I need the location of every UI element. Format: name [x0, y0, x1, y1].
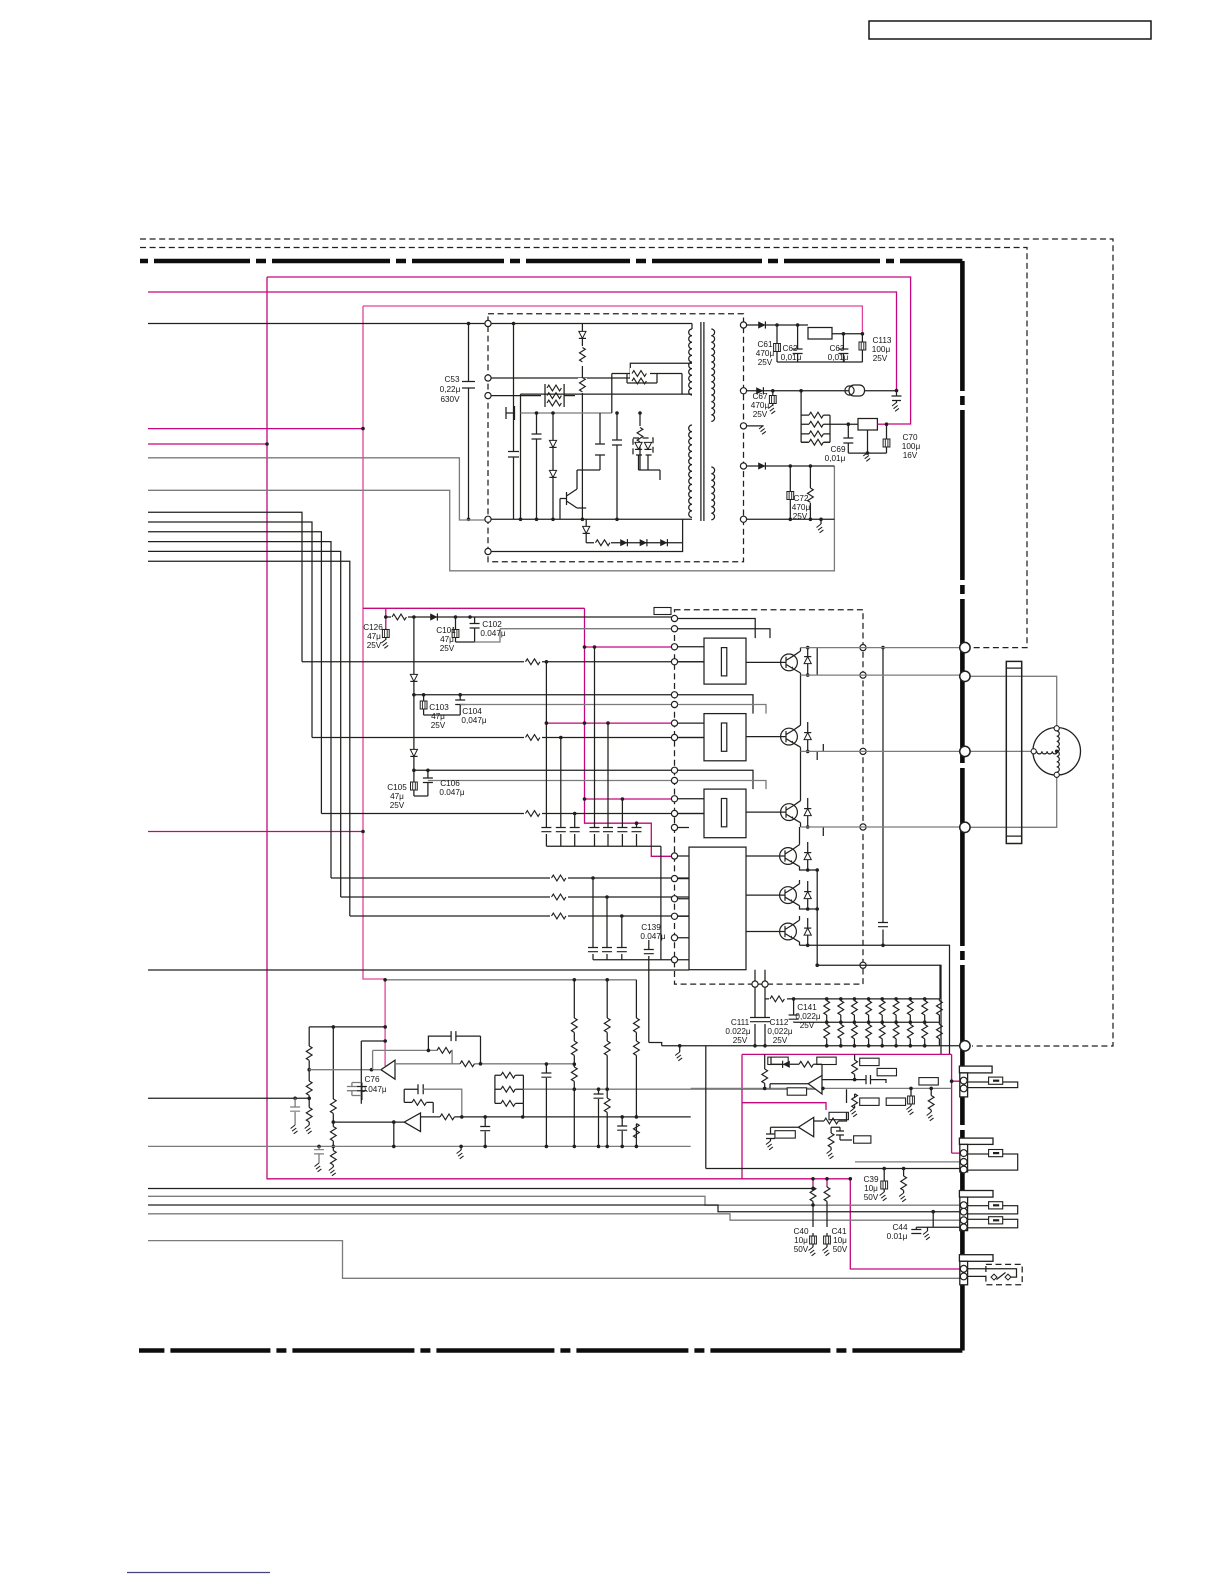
res C39 — [903, 1169, 905, 1194]
cap mid — [532, 413, 542, 519]
resistor array row1 — [824, 997, 943, 1022]
row6 line — [350, 915, 689, 917]
connector group3 — [959, 1191, 1017, 1231]
wire gray mid — [148, 458, 486, 520]
driver dashed box — [675, 610, 864, 984]
primary winding 1 — [689, 329, 692, 395]
wire 4c — [148, 1205, 960, 1212]
decoupling caps row1 — [545, 662, 547, 847]
bus wire 4 — [148, 542, 331, 878]
gnd sym mid — [460, 1146, 462, 1150]
svg-text:25V: 25V — [758, 358, 773, 367]
outer dashed border — [140, 239, 1113, 1046]
resistor array row2 — [824, 1020, 943, 1047]
caps row1 rail — [546, 846, 661, 959]
output line A — [309, 1069, 381, 1071]
diode chain — [413, 617, 415, 769]
svg-text:470μ: 470μ — [751, 401, 770, 410]
pink net line3 — [363, 306, 862, 334]
feed b3 — [678, 781, 766, 790]
diode row — [586, 519, 682, 542]
C72 line — [747, 465, 835, 467]
svg-text:0.01μ: 0.01μ — [887, 1232, 908, 1241]
svg-text:C40: C40 — [793, 1227, 808, 1236]
svg-text:50V: 50V — [794, 1245, 809, 1254]
svg-text:25V: 25V — [733, 1036, 748, 1045]
capacitor C40 — [812, 1233, 814, 1247]
pink net line2 — [148, 292, 897, 391]
svg-text:0,022μ: 0,022μ — [767, 1027, 792, 1036]
svg-text:0,22μ: 0,22μ — [440, 385, 461, 394]
svg-text:C70: C70 — [902, 433, 917, 442]
pink junction dots — [361, 427, 365, 431]
pink net left vertical / bottom rail — [267, 277, 960, 1269]
svg-text:C112: C112 — [770, 1018, 789, 1027]
label boxes — [768, 1057, 939, 1143]
capacitor C70 — [877, 423, 886, 425]
capacitor C39 — [883, 1169, 885, 1193]
feed a1 — [678, 619, 756, 639]
resistor bank 4x — [801, 391, 830, 443]
row5 line — [341, 896, 689, 898]
transistor Q2 — [781, 728, 798, 745]
C126 rail — [386, 616, 675, 618]
svg-text:C62: C62 — [782, 344, 797, 353]
resistor array mid rail — [794, 1021, 940, 1023]
res gnd 2 — [930, 1088, 932, 1112]
svg-text:C69: C69 — [830, 445, 845, 454]
pink drop C126 — [385, 608, 387, 628]
svg-text:25V: 25V — [367, 641, 382, 650]
link to array — [939, 965, 941, 999]
loop black — [361, 1041, 385, 1104]
input line B — [395, 1063, 574, 1065]
bottom line Q6 — [800, 945, 950, 1054]
motor connector bar — [1006, 661, 1021, 843]
cap s3 — [621, 1117, 623, 1146]
svg-text:0.047μ: 0.047μ — [361, 1085, 386, 1094]
bus wire 5 — [148, 551, 341, 897]
svg-text:25V: 25V — [390, 801, 405, 810]
wire 4b — [148, 1196, 960, 1205]
capacitor C139 — [648, 940, 650, 960]
gray link — [475, 629, 675, 642]
net A — [771, 1057, 822, 1076]
svg-text:100μ: 100μ — [872, 345, 891, 354]
thick chain border top — [140, 259, 962, 264]
svg-text:47μ: 47μ — [440, 635, 454, 644]
motor M1 — [1033, 728, 1081, 776]
svg-text:470μ: 470μ — [756, 349, 775, 358]
emitter bus — [817, 648, 823, 966]
pink box top — [742, 1054, 952, 1178]
divider chain B — [332, 1027, 334, 1167]
divider chain A — [308, 1027, 310, 1125]
bus wire 3 — [148, 532, 321, 814]
svg-text:10μ: 10μ — [864, 1184, 878, 1193]
thick chain border bottom — [139, 1348, 962, 1353]
C67 line — [747, 390, 849, 392]
svg-text:C44: C44 — [892, 1223, 907, 1232]
wire gray low wrap — [148, 466, 834, 571]
C105 line — [414, 769, 675, 771]
svg-text:0,022μ: 0,022μ — [795, 1012, 820, 1021]
capacitor C63 — [838, 334, 848, 362]
row4 line — [331, 877, 689, 879]
svg-text:16V: 16V — [903, 451, 918, 460]
svg-text:0,01μ: 0,01μ — [828, 353, 849, 362]
gray link2 — [460, 704, 674, 706]
primary tap wire — [491, 363, 692, 378]
pink branch line4 — [148, 428, 363, 430]
wire 4d — [148, 1214, 960, 1220]
resistor C41 leg — [826, 1179, 828, 1186]
svg-text:C101: C101 — [436, 626, 456, 635]
transistor Q5 — [780, 887, 797, 904]
gnd cap left — [318, 1146, 320, 1163]
bottom-left rule — [127, 1572, 270, 1574]
connector group1 — [959, 1066, 1017, 1097]
IC pin stubs — [755, 970, 765, 981]
resistor array top rail — [765, 998, 940, 1000]
driver pins left — [671, 615, 677, 621]
capacitor C72 — [789, 466, 791, 519]
fb B res — [831, 1127, 840, 1150]
C61 ground rail — [777, 361, 862, 363]
resistor C72r — [809, 466, 811, 519]
svg-text:50V: 50V — [864, 1193, 879, 1202]
svg-text:47μ: 47μ — [367, 632, 381, 641]
pink supply rail — [363, 608, 675, 856]
transformer pins left — [485, 320, 491, 326]
row1 resistor line — [302, 661, 704, 663]
loop B cap — [404, 1089, 433, 1113]
feed b2 — [678, 705, 766, 714]
feed a2 — [678, 695, 753, 714]
vert links right — [649, 960, 662, 1046]
wire low gray — [385, 979, 636, 981]
sense chain 3 — [635, 980, 637, 1146]
capacitor C69 — [843, 424, 853, 453]
svg-text:25V: 25V — [440, 644, 455, 653]
out line mid — [421, 1116, 691, 1118]
C72 bottom line — [747, 518, 835, 520]
svg-text:47μ: 47μ — [390, 792, 404, 801]
diode-resistor chain — [581, 324, 583, 520]
svg-text:C105: C105 — [387, 783, 407, 792]
svg-text:25V: 25V — [431, 721, 446, 730]
svg-text:0,01μ: 0,01μ — [781, 353, 802, 362]
svg-text:C103: C103 — [429, 703, 449, 712]
phase rail W — [801, 750, 960, 752]
capacitor C101 — [456, 617, 475, 642]
gnd rail opamp — [148, 1145, 691, 1147]
transformer core — [701, 322, 704, 521]
pink feed 1 — [585, 646, 675, 648]
bottom rail — [491, 518, 692, 520]
svg-text:C139: C139 — [641, 923, 661, 932]
motor wire C — [970, 777, 1056, 827]
line to pin out — [817, 965, 941, 1054]
vertical hv — [882, 648, 884, 946]
feed a3 — [678, 770, 753, 789]
svg-text:C67: C67 — [752, 392, 767, 401]
pin stubs — [678, 647, 704, 960]
svg-text:C126: C126 — [363, 623, 383, 632]
feedback gray — [373, 1050, 453, 1069]
capacitor C103 — [424, 695, 461, 715]
regulator U62 — [858, 419, 877, 431]
row2 resistor line — [312, 737, 704, 739]
bus wire 2 — [148, 522, 312, 738]
capacitor C141 — [793, 999, 795, 1022]
mid junction — [854, 1094, 856, 1108]
cap mid — [545, 1064, 547, 1146]
svg-text:25V: 25V — [793, 512, 808, 521]
svg-text:25V: 25V — [800, 1021, 815, 1030]
svg-text:C111: C111 — [731, 1018, 750, 1027]
pink vertical x363 — [363, 306, 385, 1066]
phase rail G — [801, 826, 960, 828]
switch S1 — [967, 1269, 1016, 1277]
pink feed 2 — [546, 722, 674, 724]
motor wire B — [970, 750, 1031, 752]
caps row2 rail — [593, 959, 675, 961]
title box — [869, 21, 1151, 39]
driver small box — [654, 608, 671, 615]
motor windings — [1057, 731, 1060, 752]
wire low black — [148, 969, 689, 971]
svg-text:100μ: 100μ — [902, 442, 921, 451]
top rail — [309, 1026, 385, 1028]
svg-text:47μ: 47μ — [431, 712, 445, 721]
SECTION:LABELS — [361, 336, 920, 1254]
svg-text:25V: 25V — [773, 1036, 788, 1045]
phase rail V — [801, 674, 960, 676]
sense chain 2 — [606, 980, 608, 1146]
mid tap ground — [747, 425, 764, 427]
svg-text:0.047μ: 0.047μ — [640, 932, 665, 941]
svg-text:0.047μ: 0.047μ — [439, 788, 464, 797]
op-amp U4B — [798, 1117, 813, 1136]
thick chain border right — [960, 261, 965, 1351]
mosfet Q — [506, 394, 692, 519]
C103 line — [414, 694, 675, 696]
svg-text:C141: C141 — [797, 1003, 817, 1012]
svg-text:C104: C104 — [462, 707, 482, 716]
caps row2 — [592, 878, 594, 960]
transformer dashed box — [488, 314, 744, 562]
inner dashed border — [140, 248, 1027, 648]
svg-text:C72: C72 — [793, 494, 808, 503]
freewheel diodes — [807, 648, 809, 676]
motor wire A — [970, 676, 1056, 726]
driver pins right — [860, 645, 866, 651]
wire group2 pin3 — [706, 1046, 960, 1169]
gate feed line — [491, 395, 545, 397]
svg-text:630V: 630V — [440, 395, 460, 404]
svg-text:C53: C53 — [444, 375, 459, 384]
pink net V+ outer — [267, 277, 911, 424]
diode pair vertical — [552, 413, 554, 519]
svg-text:C39: C39 — [863, 1175, 878, 1184]
transistor q2 — [560, 470, 600, 519]
primary winding 2 — [689, 425, 692, 517]
pink branch left low — [148, 831, 363, 833]
svg-text:10μ: 10μ — [794, 1236, 808, 1245]
triple resistor mid — [495, 1075, 524, 1103]
svg-text:50V: 50V — [833, 1245, 848, 1254]
phase rail U — [801, 647, 960, 649]
input wire — [148, 1097, 309, 1099]
pink feed 3 — [585, 798, 675, 800]
opto coupler 3 — [704, 789, 746, 838]
svg-text:C41: C41 — [831, 1227, 846, 1236]
gray fb line long — [523, 1088, 823, 1090]
sense chain 1 — [573, 980, 575, 1146]
svg-text:C63: C63 — [829, 344, 844, 353]
output line B — [333, 1121, 404, 1123]
svg-text:10μ: 10μ — [833, 1236, 847, 1245]
ground rail — [662, 1045, 960, 1047]
capacitor C104 — [455, 695, 465, 715]
driver IC box — [689, 847, 746, 970]
capacitor C106 — [423, 770, 433, 796]
net B — [814, 1089, 847, 1121]
feed b1 — [678, 629, 770, 638]
out B — [766, 1127, 798, 1141]
capacitor C105 — [414, 770, 428, 796]
gate line gray — [521, 412, 612, 414]
C61 rail — [747, 324, 808, 326]
res gnd 1 — [910, 1088, 912, 1106]
input cap — [294, 1098, 296, 1125]
cap drop — [484, 1117, 486, 1147]
svg-text:0,047μ: 0,047μ — [461, 716, 486, 725]
svg-text:0.047μ: 0.047μ — [480, 629, 505, 638]
pink box right — [952, 1054, 960, 1153]
transistor Q6 — [780, 923, 797, 940]
capacitor C113 — [861, 334, 863, 362]
op-amp U4A — [808, 1076, 822, 1095]
row3 resistor line — [321, 813, 704, 815]
capacitor C76 — [347, 1083, 361, 1096]
opto coupler 2 — [704, 714, 746, 761]
secondary winding 2 — [711, 467, 714, 520]
svg-text:C76: C76 — [364, 1075, 379, 1084]
transformer pins right — [740, 322, 746, 328]
output A left — [770, 1084, 808, 1089]
transistor Q3 — [781, 804, 798, 821]
capacitor C53 — [462, 324, 475, 520]
primary top rail — [491, 324, 692, 330]
big pins on trunk — [960, 642, 970, 652]
zener pair dashed — [633, 438, 653, 455]
svg-text:25V: 25V — [873, 354, 888, 363]
svg-text:C61: C61 — [757, 340, 772, 349]
wire AC in — [148, 323, 488, 325]
rc cluster — [612, 374, 682, 414]
capacitor C44 — [911, 1212, 959, 1234]
gray link3 — [428, 780, 675, 782]
connector group4 — [959, 1255, 993, 1285]
capacitor C102 — [470, 617, 480, 642]
loop B gray — [423, 1089, 462, 1117]
wire 4a — [148, 1188, 813, 1190]
svg-text:470μ: 470μ — [792, 503, 811, 512]
capacitor C126 — [385, 628, 387, 640]
cap loop top — [428, 1031, 480, 1064]
op-amp U3A — [381, 1060, 395, 1079]
resistor C40 leg — [812, 1179, 814, 1186]
regulator U61 — [808, 328, 832, 340]
wire group2 pin2 — [855, 1161, 960, 1163]
connector group2 — [959, 1138, 1017, 1173]
wire bottom gray — [148, 1241, 960, 1279]
transistor Q1 — [781, 654, 798, 671]
res left — [764, 1054, 766, 1088]
opto coupler 1 — [704, 638, 746, 684]
pin drops C111 C112 — [754, 987, 756, 1046]
svg-text:0.022μ: 0.022μ — [725, 1027, 750, 1036]
svg-text:C106: C106 — [440, 779, 460, 788]
res mid — [854, 1054, 856, 1079]
driver pins bottom — [752, 981, 758, 987]
triple resistor bank — [545, 384, 564, 407]
snubber cap — [508, 324, 519, 520]
svg-text:0,01μ: 0,01μ — [825, 454, 846, 463]
ferrite bead — [849, 385, 865, 396]
svg-text:25V: 25V — [753, 410, 768, 419]
pink inner — [742, 1103, 826, 1110]
lower aux line — [491, 519, 683, 551]
gray input long — [691, 1087, 952, 1089]
svg-text:C113: C113 — [873, 336, 892, 345]
bus wire 6 — [148, 561, 350, 916]
pink branch line5 — [148, 443, 267, 445]
op-amp U3B — [404, 1113, 420, 1132]
fb cap A — [822, 1075, 886, 1084]
svg-text:C102: C102 — [482, 620, 502, 629]
transistor Q4 — [780, 848, 797, 865]
capacitor C62 — [793, 325, 803, 362]
capacitor C41 — [826, 1233, 828, 1247]
cap s2 — [598, 1089, 600, 1145]
secondary winding 1 — [711, 329, 714, 421]
bus wire 1 — [148, 512, 302, 662]
